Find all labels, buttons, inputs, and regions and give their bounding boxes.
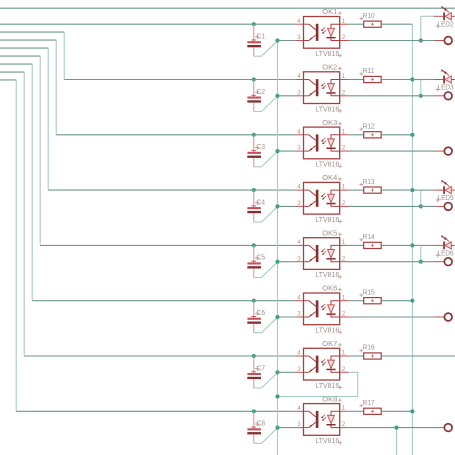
wire row 7 pin3 <box>278 371 296 373</box>
phototransistor of OK1 <box>304 23 309 25</box>
wire OK2 pin1 to R11 <box>349 79 364 81</box>
svg-text:C8: C8 <box>257 421 265 428</box>
svg-text:4: 4 <box>297 294 301 301</box>
junction node R11 out <box>410 77 414 81</box>
svg-text:LED6: LED6 <box>438 251 454 258</box>
connector pad row 1 <box>444 37 452 45</box>
wire row 3 pin3 <box>278 150 296 152</box>
wire row 6 pin2 to pad <box>349 316 435 318</box>
label R11 <box>359 72 363 76</box>
svg-text:LTV816: LTV816 <box>315 383 339 390</box>
wire left bus drop to row 4 <box>0 47 48 49</box>
op-to pin stubs OK3 <box>295 134 303 136</box>
wire cap C7 to node <box>254 373 278 388</box>
wire OK5 pin1 to R14 <box>349 244 364 246</box>
LED LED2 <box>434 15 443 17</box>
wire LED2 branch up <box>421 16 434 40</box>
wire row 6 pin3 <box>278 316 296 318</box>
internal LED of OK4 <box>331 190 340 194</box>
junction node row 4 pin2 <box>419 204 423 208</box>
svg-text:C5: C5 <box>257 255 265 262</box>
connector pad row 5 <box>444 258 452 266</box>
resistor R14 <box>364 242 382 248</box>
light arrows of LED5 <box>443 181 447 185</box>
svg-text:R10: R10 <box>363 13 375 20</box>
light arrows of LED2 <box>443 7 447 11</box>
svg-text:4: 4 <box>297 350 301 357</box>
capacitor C4 <box>253 190 255 207</box>
wire row 1 pin3 <box>278 40 296 42</box>
svg-text:OK6: OK6 <box>322 286 337 293</box>
svg-text:LTV816: LTV816 <box>315 162 339 169</box>
svg-text:LTV816: LTV816 <box>315 106 339 113</box>
svg-text:OK3: OK3 <box>322 120 337 127</box>
pad stub row 6 <box>435 316 444 318</box>
wire left bus drop to row 5 <box>0 55 40 57</box>
wire common vertical net <box>277 41 279 455</box>
junction node R15 out <box>410 299 414 303</box>
light arrows of LED3 <box>443 71 447 75</box>
wire cap C4 to node <box>254 207 278 222</box>
light arrows of OK3 <box>322 138 325 141</box>
svg-text:2: 2 <box>342 366 346 373</box>
svg-text:LED5: LED5 <box>438 195 454 202</box>
wire right jog row 4 <box>412 189 420 191</box>
junction node row 7 pin3 <box>275 370 279 374</box>
resistor R15 <box>364 298 382 304</box>
capacitor C7 <box>253 356 255 373</box>
svg-text:C4: C4 <box>257 199 265 206</box>
label C5 <box>255 256 259 260</box>
wire left bus drop to row 6 <box>0 63 32 65</box>
resistor R16 <box>364 353 382 359</box>
junction node row 5 pin3 <box>275 260 279 264</box>
svg-text:OK7: OK7 <box>322 341 337 348</box>
wire cap C8 to node <box>254 428 278 443</box>
svg-text:2: 2 <box>342 200 346 207</box>
label LED2 <box>436 24 440 28</box>
svg-text:LTV816: LTV816 <box>315 217 339 224</box>
label C1 <box>255 35 259 39</box>
svg-text:4: 4 <box>297 73 301 80</box>
connector pad row 3 <box>444 147 452 155</box>
pad stub row 4 <box>435 205 444 207</box>
label R12 <box>359 127 363 131</box>
svg-text:R13: R13 <box>363 179 375 186</box>
wire row 5 pin2 to pad <box>349 261 435 263</box>
wire R15 out to right vertical <box>381 300 412 302</box>
wire row 1 pin2 to pad <box>349 40 435 42</box>
wire left bus drop to row 3 <box>0 39 56 41</box>
svg-text:C1: C1 <box>257 34 265 41</box>
connector pad row 2 <box>444 92 452 100</box>
wire OK3 pin1 to R12 <box>349 134 364 136</box>
svg-text:3: 3 <box>297 145 301 152</box>
wire right jog row 5 <box>412 244 420 246</box>
internal LED of OK7 <box>331 356 340 360</box>
wire OK7 pin2 loop <box>278 372 358 396</box>
svg-text:LTV816: LTV816 <box>315 438 339 445</box>
wire OK7 pin1 to R16 <box>349 355 364 357</box>
internal LED of OK6 <box>331 301 340 305</box>
wire R10 out to right vertical <box>381 23 412 25</box>
svg-text:1: 1 <box>342 184 346 191</box>
label C7 <box>255 366 259 370</box>
phototransistor of OK6 <box>304 300 309 302</box>
junction node row 4 pin3 <box>275 204 279 208</box>
junction node R14 out <box>410 243 414 247</box>
svg-text:2: 2 <box>342 311 346 318</box>
svg-text:R12: R12 <box>363 124 375 131</box>
junction node row 1 pin2 <box>419 38 423 42</box>
LED LED6 <box>434 244 443 246</box>
svg-text:3: 3 <box>297 255 301 262</box>
svg-text:1: 1 <box>342 405 346 412</box>
label C6 <box>255 311 259 315</box>
capacitor C3 <box>253 135 255 152</box>
junction node row 2 pin4/cap <box>252 77 256 81</box>
resistor R12 <box>364 132 382 138</box>
light arrows of OK1 <box>322 27 325 30</box>
resistor R17 <box>364 408 382 414</box>
junction node OK7 loop <box>275 394 279 398</box>
label R13 <box>359 183 363 187</box>
junction node row 8 pin3 <box>275 426 279 430</box>
svg-text:R16: R16 <box>363 345 375 352</box>
label R17 <box>359 404 363 408</box>
svg-text:LTV816: LTV816 <box>315 272 339 279</box>
connector pad row 8 <box>444 424 452 432</box>
svg-text:C2: C2 <box>257 89 265 96</box>
svg-text:4: 4 <box>297 128 301 135</box>
junction node row 6 pin4/cap <box>252 299 256 303</box>
wire R16 out to right edge <box>381 355 455 357</box>
optocoupler OK5 box <box>304 238 340 270</box>
svg-text:2: 2 <box>342 145 346 152</box>
op-to pin stubs OK5 <box>295 244 303 246</box>
connector pad row 4 <box>444 203 452 211</box>
junction node row 2 pin3 <box>275 94 279 98</box>
pad stub row 1 <box>435 40 444 42</box>
svg-text:3: 3 <box>297 311 301 318</box>
LED LED3 <box>434 79 443 81</box>
label C8 <box>255 422 259 426</box>
wire left bus drop to row 2 <box>0 31 64 33</box>
op-to pin stubs OK1 <box>295 23 303 25</box>
wire R13 out to right vertical <box>381 189 412 191</box>
capacitor C5 <box>253 245 255 262</box>
internal LED of OK8 <box>331 411 340 415</box>
wire row 4 pin2 to pad <box>349 205 435 207</box>
svg-text:LTV816: LTV816 <box>315 51 339 58</box>
junction node row 6 pin3 <box>275 315 279 319</box>
wire row 3 pin2 to pad <box>349 150 435 152</box>
light arrows of OK5 <box>322 249 325 252</box>
wire row 2 pin2 to pad <box>349 95 435 97</box>
wire left bus drop to row 8 <box>0 79 16 81</box>
light arrows of LED6 <box>443 236 447 240</box>
phototransistor of OK8 <box>304 410 309 412</box>
label R15 <box>359 293 363 297</box>
junction node R13 out <box>410 188 414 192</box>
wire left bus drop to row 7 <box>0 71 24 73</box>
svg-text:3: 3 <box>297 34 301 41</box>
pad stub row 3 <box>435 150 444 152</box>
capacitor C1 <box>253 24 255 41</box>
wire R14 out to right vertical <box>381 244 412 246</box>
svg-text:C7: C7 <box>257 365 265 372</box>
wire R12 out to right vertical <box>381 134 412 136</box>
junction node row 5 pin4/cap <box>252 243 256 247</box>
svg-text:2: 2 <box>342 255 346 262</box>
wire OK1 pin1 to R10 <box>349 23 364 25</box>
pad stub row 2 <box>435 95 444 97</box>
phototransistor of OK7 <box>304 355 309 357</box>
wire OK4 pin1 to R13 <box>349 189 364 191</box>
svg-text:4: 4 <box>297 18 301 25</box>
wire right vertical net <box>411 24 413 455</box>
junction node row 5 pin2 <box>419 260 423 264</box>
svg-text:1: 1 <box>342 350 346 357</box>
wire cap C6 to node <box>254 317 278 332</box>
optocoupler OK7 box <box>304 348 340 380</box>
svg-text:3: 3 <box>297 89 301 96</box>
svg-text:R11: R11 <box>363 68 375 75</box>
svg-text:LED2: LED2 <box>438 21 454 28</box>
junction node row 3 pin3 <box>275 149 279 153</box>
svg-text:1: 1 <box>342 18 346 25</box>
light arrows of OK6 <box>322 304 325 307</box>
svg-text:C6: C6 <box>257 310 265 317</box>
junction node row 3 pin4/cap <box>252 133 256 137</box>
svg-text:2: 2 <box>342 89 346 96</box>
svg-text:R14: R14 <box>363 234 375 241</box>
resistor R10 <box>364 21 382 27</box>
optocoupler OK1 box <box>304 17 340 49</box>
light arrows of OK7 <box>322 359 325 362</box>
svg-text:3: 3 <box>297 200 301 207</box>
svg-text:3: 3 <box>297 366 301 373</box>
wire row8 bottom vertical <box>396 428 398 455</box>
junction node row 2 pin2 <box>419 94 423 98</box>
label C4 <box>255 201 259 205</box>
svg-text:4: 4 <box>297 239 301 246</box>
pad stub row 8 <box>435 427 444 429</box>
wire row 2 pin3 <box>278 95 296 97</box>
wire OK8 pin1 to R17 <box>349 410 364 412</box>
label LED6 <box>436 253 440 257</box>
resistor R11 <box>364 76 382 82</box>
svg-text:4: 4 <box>297 405 301 412</box>
wire R11 out to right vertical <box>381 79 412 81</box>
svg-text:LED3: LED3 <box>438 85 454 92</box>
label R16 <box>359 349 363 353</box>
svg-text:R15: R15 <box>363 289 375 296</box>
wire row1 feed <box>0 23 295 25</box>
svg-text:3: 3 <box>297 421 301 428</box>
internal LED of OK5 <box>331 245 340 249</box>
light arrows of OK2 <box>322 83 325 86</box>
label R10 <box>359 17 363 21</box>
optocoupler OK4 box <box>304 182 340 214</box>
junction node row 4 pin4/cap <box>252 188 256 192</box>
wire row 5 pin3 <box>278 261 296 263</box>
svg-text:1: 1 <box>342 128 346 135</box>
connector pad row 6 <box>444 313 452 321</box>
svg-text:R17: R17 <box>363 400 375 407</box>
LED LED5 <box>434 189 443 191</box>
svg-text:1: 1 <box>342 239 346 246</box>
wire row 8 pin3 <box>278 427 296 429</box>
phototransistor of OK4 <box>304 189 309 191</box>
wire right jog row 2 <box>412 79 420 81</box>
junction node row 7 pin4/cap <box>252 354 256 358</box>
resistor R13 <box>364 187 382 193</box>
wire row 4 pin3 <box>278 205 296 207</box>
svg-text:C3: C3 <box>257 144 265 151</box>
svg-text:LTV816: LTV816 <box>315 328 339 335</box>
op-to pin stubs OK6 <box>295 300 303 302</box>
svg-text:OK5: OK5 <box>322 230 337 237</box>
junction node R12 out <box>410 133 414 137</box>
wire cap C1 to node <box>254 41 278 56</box>
optocoupler OK2 box <box>304 72 340 104</box>
wire OK6 pin1 to R15 <box>349 300 364 302</box>
optocoupler OK3 box <box>304 127 340 159</box>
optocoupler OK6 box <box>304 293 340 325</box>
wire cap C3 to node <box>254 151 278 166</box>
label LED3 <box>436 87 440 91</box>
wire net bus top line <box>0 7 455 9</box>
wire cap C2 to node <box>254 96 278 111</box>
phototransistor of OK2 <box>304 79 309 81</box>
wire row 8 pin2 to pad <box>349 427 435 429</box>
light arrows of OK4 <box>322 193 325 196</box>
label C2 <box>255 90 259 94</box>
internal LED of OK3 <box>331 135 340 139</box>
wire R17 out to right vertical <box>381 410 412 412</box>
wire cap C5 to node <box>254 262 278 277</box>
op-to pin stubs OK7 <box>295 355 303 357</box>
capacitor C8 <box>253 411 255 428</box>
junction node R17 out <box>410 409 414 413</box>
svg-text:OK1: OK1 <box>322 9 337 16</box>
svg-text:1: 1 <box>342 294 346 301</box>
svg-text:OK4: OK4 <box>322 175 337 182</box>
junction node row 8 pin4/cap <box>252 409 256 413</box>
internal LED of OK2 <box>331 80 340 84</box>
optocoupler OK8 box <box>304 404 340 436</box>
label LED5 <box>436 198 440 202</box>
svg-text:OK2: OK2 <box>322 65 337 72</box>
junction node row 1 pin4/cap <box>252 22 256 26</box>
svg-text:4: 4 <box>297 184 301 191</box>
svg-text:2: 2 <box>342 34 346 41</box>
op-to pin stubs OK8 <box>295 410 303 412</box>
svg-text:2: 2 <box>342 421 346 428</box>
svg-text:OK8: OK8 <box>322 396 337 403</box>
light arrows of OK8 <box>322 415 325 418</box>
label C3 <box>255 145 259 149</box>
op-to pin stubs OK4 <box>295 189 303 191</box>
phototransistor of OK3 <box>304 134 309 136</box>
pad stub row 5 <box>435 261 444 263</box>
capacitor C2 <box>253 80 255 97</box>
junction node row 8 pin2 <box>394 426 398 430</box>
svg-text:1: 1 <box>342 73 346 80</box>
junction node row 1 pin3 <box>275 38 279 42</box>
op-to pin stubs OK2 <box>295 79 303 81</box>
phototransistor of OK5 <box>304 244 309 246</box>
label R14 <box>359 238 363 242</box>
internal LED of OK1 <box>331 24 340 28</box>
capacitor C6 <box>253 301 255 318</box>
